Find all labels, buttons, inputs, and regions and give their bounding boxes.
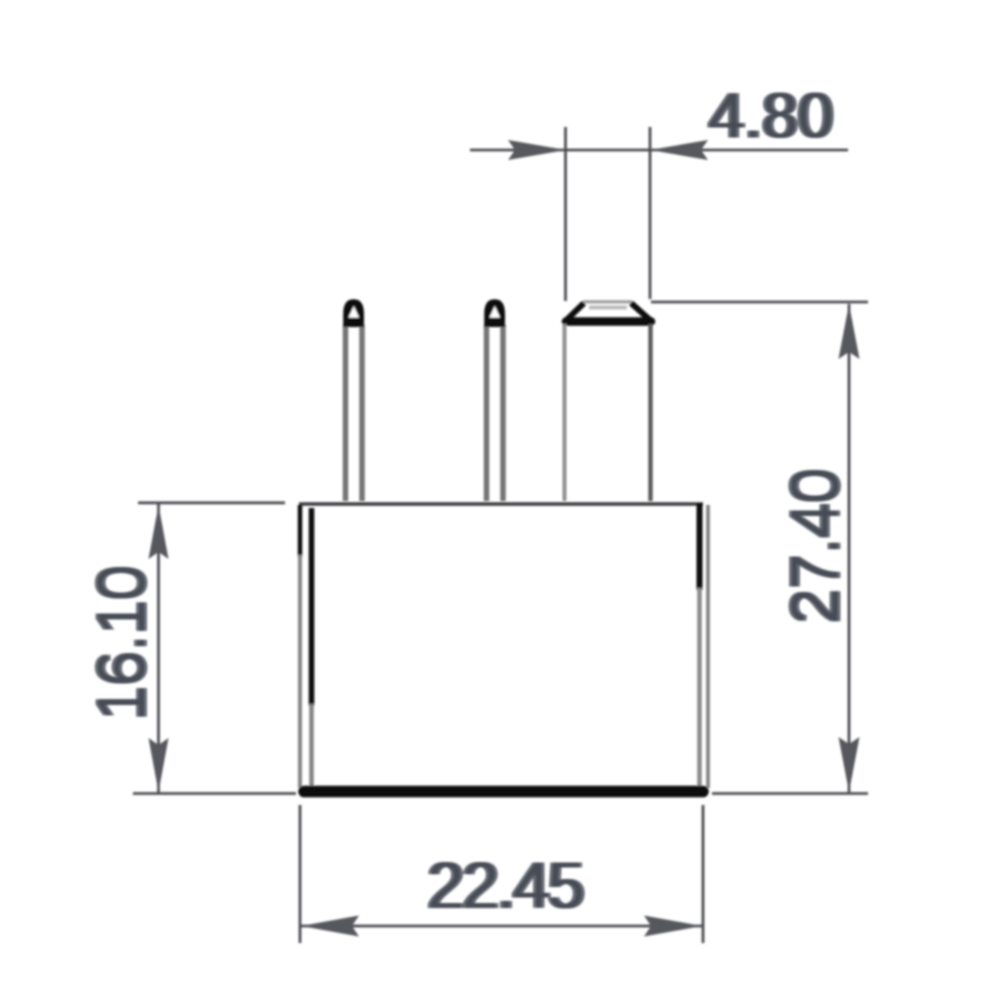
svg-text:27.40: 27.40: [778, 469, 852, 624]
svg-text:16.10: 16.10: [84, 566, 158, 721]
svg-text:4.80: 4.80: [709, 80, 834, 152]
svg-text:22.45: 22.45: [427, 848, 582, 922]
